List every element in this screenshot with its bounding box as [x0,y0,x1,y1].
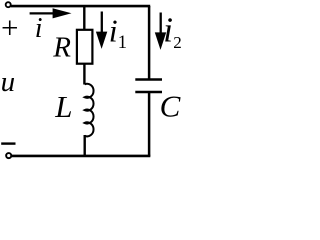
current arrow i1 [96,12,107,49]
svg-text:u: u [1,66,16,98]
svg-text:L: L [54,89,72,124]
svg-text:i: i [163,10,173,49]
current arrow i2 [155,13,166,50]
wire L to bottom [83,135,85,157]
svg-text:i: i [109,13,118,49]
svg-text:R: R [52,31,71,63]
current arrow i [30,8,72,18]
resistor R [77,30,93,64]
inductor L coil [85,84,94,137]
top-left terminal [6,2,11,7]
capacitor C [135,80,162,93]
svg-text:+: + [1,10,18,45]
wire R branch top [83,6,85,30]
wire C branch top [148,6,151,79]
wire top [11,5,151,8]
svg-text:2: 2 [173,33,182,52]
svg-text:C: C [160,89,181,124]
svg-text:i: i [35,13,43,44]
minus label [1,142,15,144]
svg-text:1: 1 [118,33,127,53]
wire bottom [11,155,150,158]
wire C branch bottom [148,92,151,157]
wire between R and L [83,63,85,85]
bottom-left terminal [6,153,11,158]
